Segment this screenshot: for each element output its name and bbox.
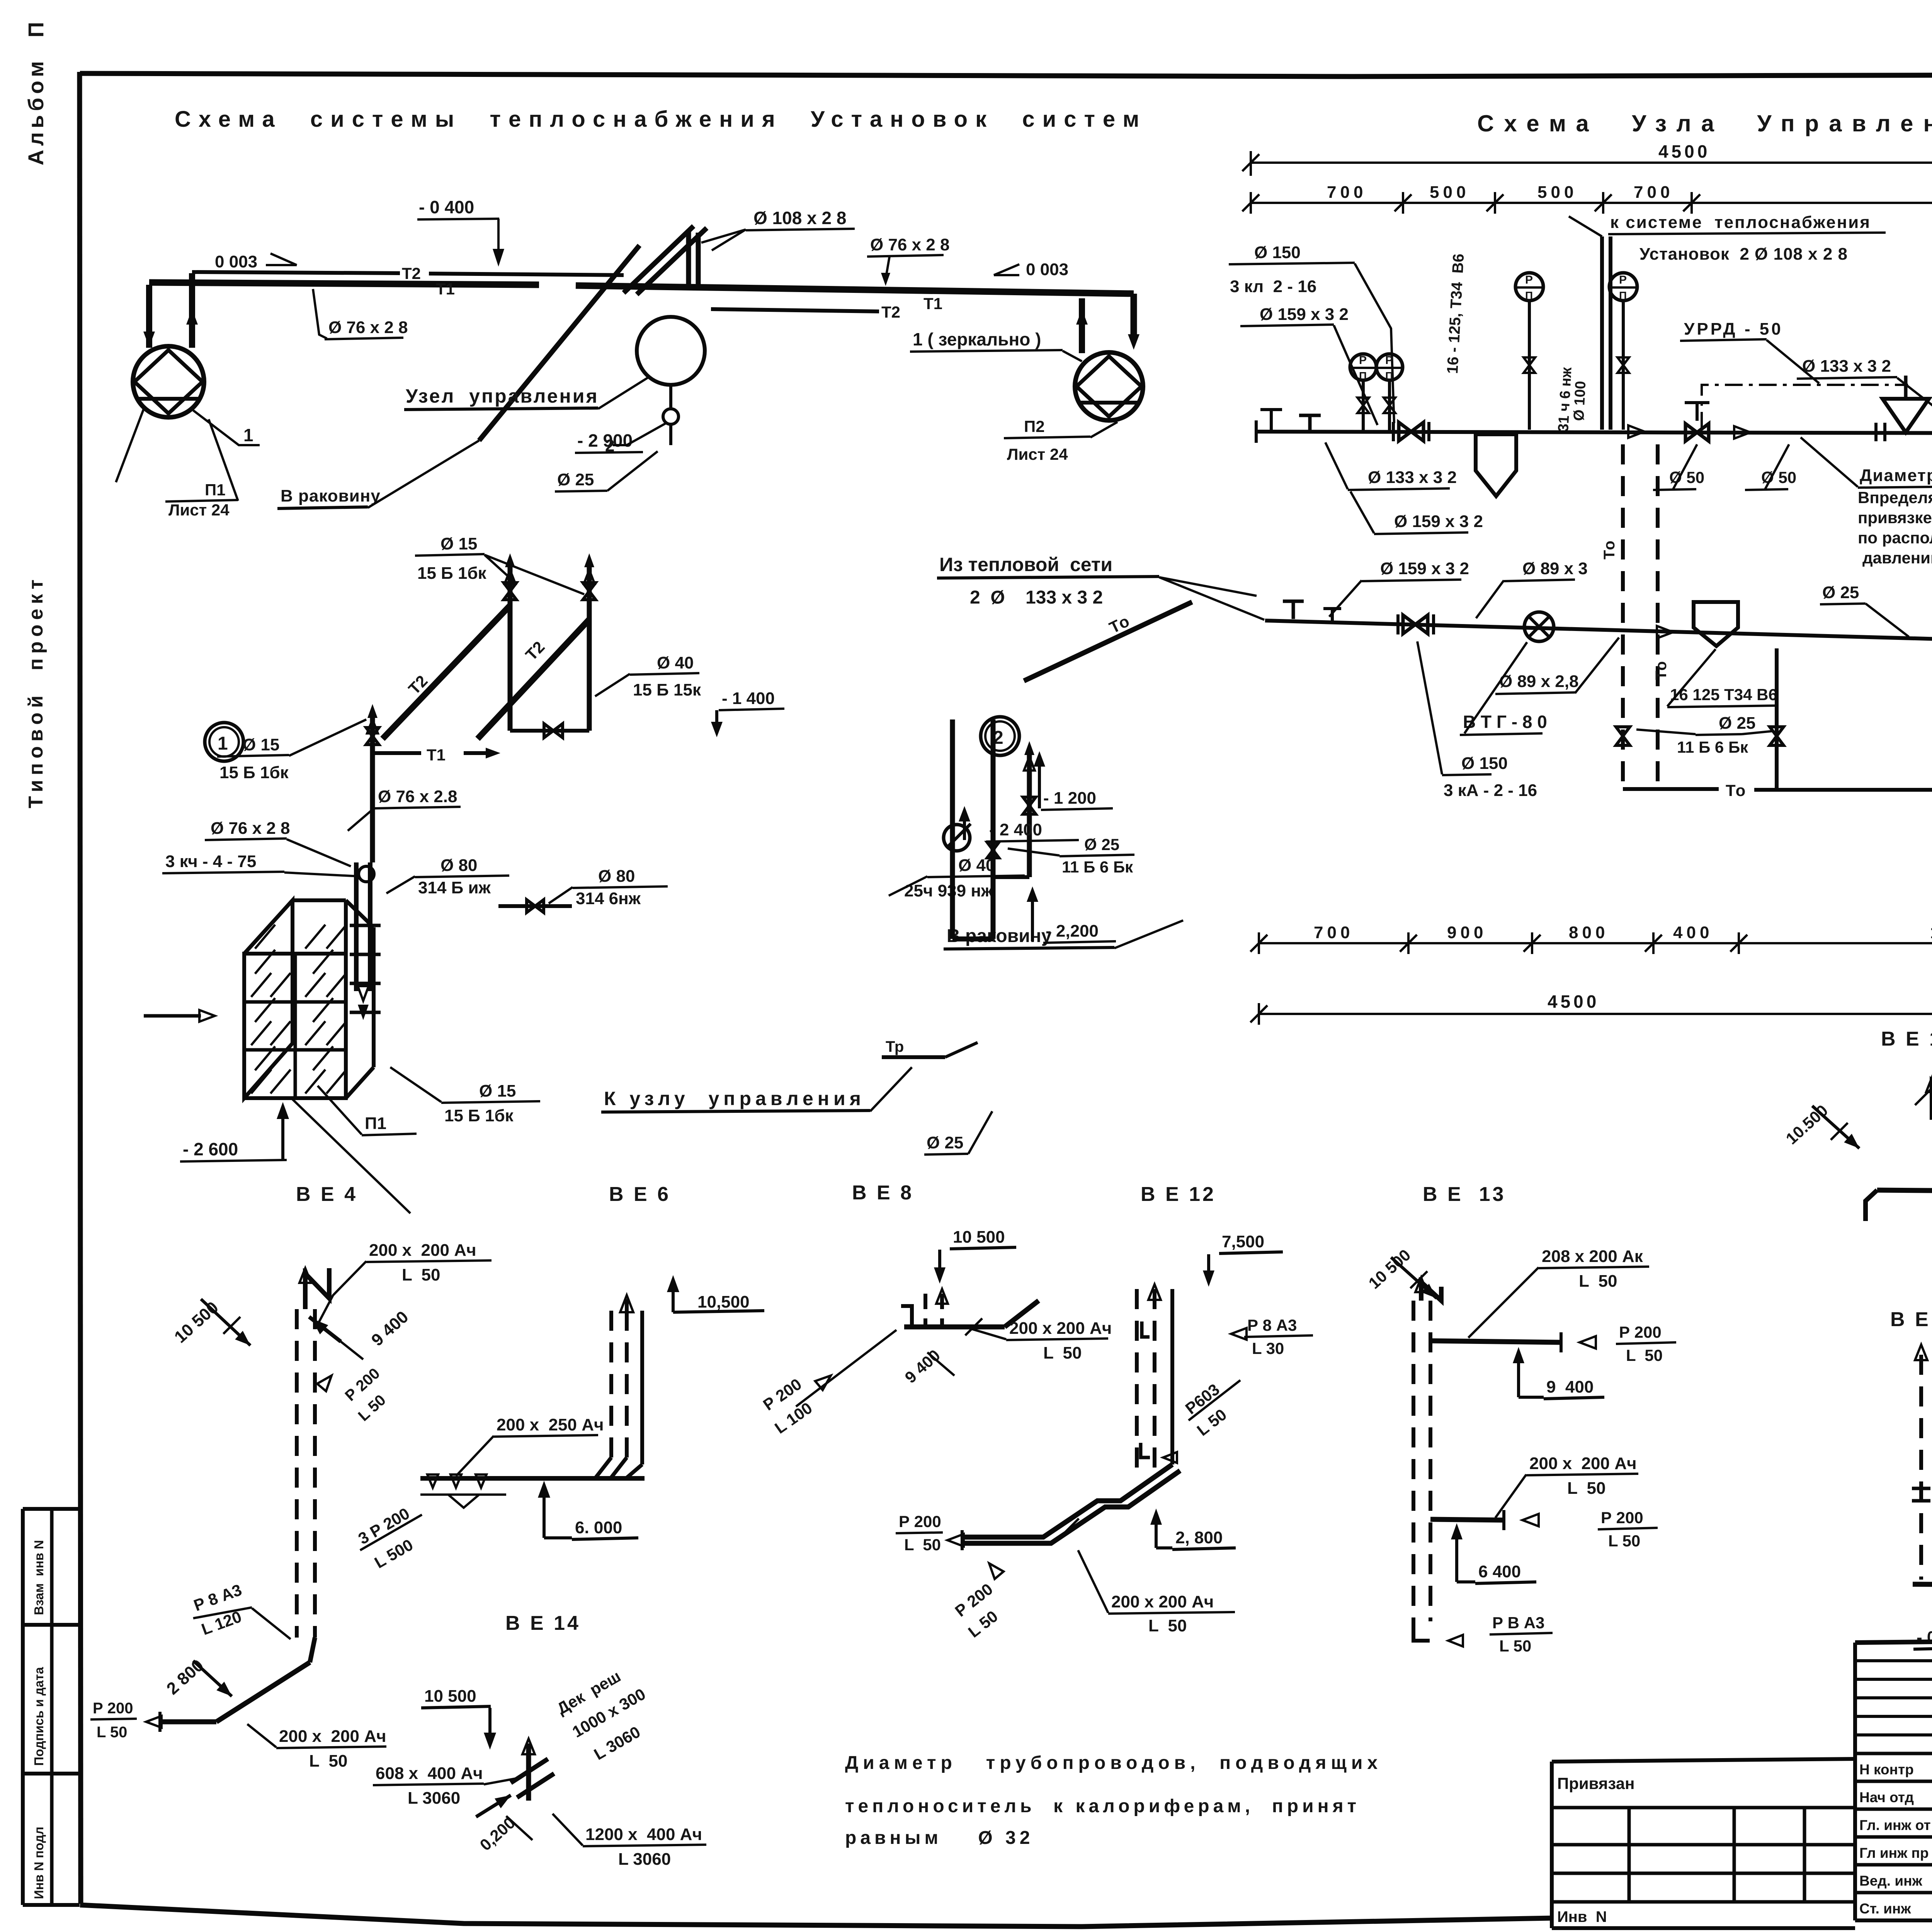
svg-text:равным Ø 32: равным Ø 32: [845, 1828, 1034, 1848]
slope mark 0.003 right: [994, 260, 1068, 279]
svg-text:L 50: L 50: [904, 1536, 941, 1554]
unit2 loop gauge: [944, 824, 971, 851]
svg-text:10,500: 10,500: [697, 1293, 750, 1311]
svg-text:Узел управления: Узел управления: [406, 385, 599, 407]
svg-text:L 50: L 50: [1148, 1616, 1187, 1635]
BE12 title: [1141, 1183, 1216, 1206]
svg-text:Р: Р: [1385, 354, 1393, 367]
svg-text:В Т Г - 8 0: В Т Г - 8 0: [1463, 712, 1547, 732]
svg-text:Р: Р: [1359, 354, 1367, 367]
label T1 left: [436, 280, 455, 298]
svg-text:Впределяется при: Впределяется при: [1858, 488, 1932, 507]
margin stamp label podpis i data: [32, 1667, 46, 1766]
svg-text:25ч 939 нж: 25ч 939 нж: [904, 881, 993, 900]
BE4 bottom arrow: [146, 1716, 162, 1728]
riser A valve: [504, 583, 517, 600]
label iz teplovoy seti: [937, 554, 1264, 620]
margin caption album: [24, 18, 48, 165]
svg-text:- 2,200: - 2,200: [1046, 922, 1099, 940]
BE12 label P8A3: [1231, 1316, 1313, 1357]
dirt pot upper: [1476, 434, 1516, 496]
BE13 vent: [1415, 1277, 1441, 1301]
label k sisteme teplosnabzheniya: [1608, 213, 1886, 264]
BE22 title: [1890, 1308, 1932, 1331]
unit mark 2 circle: [981, 717, 1019, 755]
privyazan table grid: [1552, 1759, 1855, 1928]
pipe supports: [1260, 410, 1321, 432]
main valve 2: [1685, 403, 1709, 441]
BE15 mark 10.500: [1782, 1101, 1859, 1148]
drop pipe right of pot: [1775, 648, 1779, 789]
svg-text:700: 700: [1314, 923, 1354, 942]
node uzel upravleniya circle: [637, 317, 705, 385]
BE4 label P8A3: [191, 1580, 291, 1639]
pipe T2 diagonal 2: [478, 619, 589, 739]
svg-text:1200 х 400 Ач: 1200 х 400 Ач: [585, 1825, 702, 1844]
flow arrow up2: [1734, 426, 1750, 439]
svg-text:В Е 13: В Е 13: [1423, 1183, 1506, 1206]
label d50 a: [1653, 444, 1704, 490]
BE6 mark 10.500: [667, 1275, 764, 1312]
label d80 314 right: [549, 867, 668, 908]
svg-text:1: 1: [218, 733, 228, 754]
regulator URRD body: [1883, 376, 1929, 432]
label d25 between: [1636, 714, 1773, 756]
svg-text:В Е 14: В Е 14: [505, 1612, 581, 1634]
svg-text:200 х 200 Ач: 200 х 200 Ач: [1009, 1319, 1112, 1338]
unit2 riser: [1023, 741, 1036, 877]
label d15 heater: [390, 1067, 540, 1125]
svg-text:15 Б 1бк: 15 Б 1бк: [219, 763, 289, 782]
label d15 left: [217, 719, 366, 782]
svg-text:7,500: 7,500: [1222, 1232, 1264, 1251]
label d76x2.8 unit1 left: [205, 819, 351, 866]
main valve 1: [1393, 422, 1429, 441]
BE14 label 1200x400: [553, 1814, 706, 1869]
BE12 mark 7.500: [1203, 1232, 1283, 1287]
BE4 mark 10.500: [171, 1298, 250, 1347]
BE22 bottom pipe: [1913, 1575, 1932, 1595]
svg-text:- 2 400: - 2 400: [989, 820, 1042, 839]
BE14 mark 0.200: [476, 1813, 532, 1854]
svg-text:- 2 600: - 2 600: [183, 1139, 238, 1159]
svg-text:Ø 80: Ø 80: [440, 856, 477, 875]
label URRD-50: [1680, 320, 1819, 383]
label d89x3: [1476, 559, 1588, 618]
BE22 riser dashed: [1912, 1345, 1930, 1580]
svg-text:Ø 133 х 3 2: Ø 133 х 3 2: [1368, 468, 1457, 487]
svg-text:Диаметр трубопроводов, подв: Диаметр трубопроводов, подводящих: [845, 1753, 1382, 1773]
BE8 pipe: [904, 1301, 1039, 1335]
svg-text:L 50: L 50: [1579, 1272, 1617, 1291]
riser C plug valve circle: [359, 866, 374, 882]
BE6 label 200x250: [456, 1415, 604, 1476]
svg-text:Нач отд: Нач отд: [1859, 1789, 1914, 1805]
svg-text:10 500: 10 500: [953, 1228, 1005, 1247]
pump P2 circle: [1075, 352, 1143, 420]
svg-text:Ø 150: Ø 150: [1461, 754, 1508, 773]
lower flow arrow: [1657, 626, 1673, 638]
svg-text:Схема Узла Управления: Схема Узла Управления: [1477, 111, 1932, 136]
BE14 mark 10.500: [421, 1687, 496, 1750]
drop valve: [1770, 727, 1784, 745]
elevation -2.200 unit2: [1027, 886, 1116, 943]
label T2 diag 1: [405, 672, 431, 698]
heater tag П1: [318, 1086, 417, 1135]
BE13 title: [1423, 1183, 1506, 1206]
pump P1 impeller: [134, 350, 202, 413]
dim chain bottom total: [1250, 992, 1932, 1025]
label d133 below: [1325, 442, 1457, 490]
BE14 title: [505, 1612, 581, 1634]
BE4 riser dashed pair: [297, 1309, 315, 1638]
elevation -1.200: [1034, 751, 1113, 810]
note diameter line1: [845, 1753, 1382, 1773]
svg-text:Инв N подл: Инв N подл: [32, 1827, 46, 1899]
svg-text:L 3060: L 3060: [618, 1850, 671, 1869]
gauge pair mid: [1515, 273, 1637, 430]
svg-text:2, 800: 2, 800: [1175, 1528, 1223, 1547]
margin stamp label vzam inv: [32, 1540, 46, 1615]
svg-text:П: П: [1525, 289, 1533, 301]
svg-text:Ø 159 х 3 2: Ø 159 х 3 2: [1260, 305, 1349, 324]
svg-text:П2: П2: [1024, 417, 1045, 435]
BE12 zpipe: [962, 1464, 1180, 1543]
BE4 mark 2.800: [163, 1656, 232, 1698]
label d25 tr: [924, 1111, 992, 1155]
BE13 branch low: [1430, 1510, 1539, 1530]
BE6 title: [609, 1183, 671, 1206]
svg-text:Ø 133 х 3 2: Ø 133 х 3 2: [1802, 357, 1891, 376]
svg-text:Т2: Т2: [402, 264, 421, 282]
BE8 title: [852, 1182, 914, 1204]
BE14 arrow left: [476, 1795, 511, 1817]
svg-text:Т1: Т1: [427, 746, 446, 764]
svg-text:Ст. инж: Ст. инж: [1859, 1901, 1911, 1917]
svg-text:4500: 4500: [1658, 141, 1710, 162]
svg-text:11 Б 6 Бк: 11 Б 6 Бк: [1677, 738, 1748, 756]
border frame top line: [80, 73, 1932, 77]
label To diagonal: [1024, 602, 1192, 681]
svg-text:УРРД - 50: УРРД - 50: [1684, 320, 1783, 338]
pipe T0 horizontal: [1623, 762, 1932, 801]
svg-text:Лист 24: Лист 24: [1007, 445, 1068, 463]
svg-text:В Е 6: В Е 6: [609, 1183, 671, 1206]
BE12 riser: [1137, 1284, 1172, 1471]
elevation -2.900 label: [575, 430, 643, 453]
svg-text:В Е 22 *: В Е 22 *: [1890, 1308, 1932, 1331]
svg-text:Ø 25: Ø 25: [1719, 714, 1755, 733]
elevation -1.400 unit1: [711, 689, 784, 737]
label T2 right: [881, 303, 900, 321]
svg-text:200 х 200 Ач: 200 х 200 Ач: [1111, 1592, 1214, 1611]
pipe T1 right segment: [576, 286, 1134, 294]
riser C drop arrows: [358, 986, 369, 1020]
svg-text:Т1: Т1: [436, 280, 455, 298]
svg-text:608 х 400 Ач: 608 х 400 Ач: [376, 1764, 483, 1783]
label 3kch-4-75: [162, 852, 360, 876]
label 16 125 T34 lower: [1667, 649, 1778, 707]
svg-text:L 50: L 50: [1043, 1344, 1082, 1362]
svg-text:0 003: 0 003: [215, 252, 257, 271]
svg-text:Р: Р: [1619, 274, 1627, 286]
BE22 mark -0.500: [1913, 1587, 1932, 1649]
svg-text:Ø 15: Ø 15: [479, 1082, 516, 1100]
svg-text:К узлу управления: К узлу управления: [604, 1088, 865, 1109]
svg-text:Диаметр шайбы: Диаметр шайбы: [1860, 466, 1932, 485]
BE4 callout 200x200: [318, 1241, 492, 1325]
branch riser pair: [1569, 216, 1611, 430]
svg-text:П1: П1: [205, 481, 226, 499]
valve small circle: [663, 385, 679, 445]
svg-text:давлению: давлению: [1862, 549, 1932, 567]
riser crossing vertical pair: [689, 232, 698, 291]
main pipe upper: [1256, 420, 1932, 443]
BE13 mark 6.400: [1451, 1523, 1536, 1583]
svg-text:L 50: L 50: [97, 1724, 127, 1741]
BE6 ground line: [420, 1476, 645, 1481]
svg-text:L 50: L 50: [402, 1265, 440, 1284]
svg-text:В раковину: В раковину: [947, 926, 1052, 946]
BE6 riser: [595, 1311, 642, 1478]
svg-text:П: П: [1385, 370, 1393, 382]
label d133 right: [1797, 357, 1932, 430]
svg-text:Ø 80: Ø 80: [598, 867, 635, 886]
signature rows text: [1859, 1762, 1932, 1917]
pump P2 ref П2 лист 24: [1004, 417, 1117, 463]
svg-text:31 ч 6 нж: 31 ч 6 нж: [1555, 366, 1575, 432]
svg-text:Привязан: Привязан: [1557, 1774, 1634, 1793]
BE8 riser: [901, 1289, 948, 1326]
T0 dashed left pair: [1601, 444, 1670, 789]
svg-text:500: 500: [1430, 183, 1469, 202]
svg-text:Взам инв N: Взам инв N: [32, 1540, 46, 1615]
label d150 3kl: [1229, 243, 1394, 423]
svg-text:Инв N: Инв N: [1557, 1908, 1607, 1925]
label d76x2.8 left: [313, 289, 408, 339]
svg-text:по располагаемому: по располагаемому: [1858, 529, 1932, 547]
BE13 mark 10.500: [1365, 1246, 1437, 1298]
svg-text:Ø 25: Ø 25: [1822, 583, 1859, 602]
svg-text:Н контр: Н контр: [1859, 1762, 1914, 1777]
privyazan label: [1557, 1774, 1634, 1793]
label d159 lower-left: [1329, 559, 1469, 617]
svg-text:В Е 15: В Е 15: [1881, 1028, 1932, 1050]
BE14 label 608x400: [373, 1764, 522, 1808]
riser B vent arrows: [584, 553, 595, 584]
svg-text:Ø 76 х 2.8: Ø 76 х 2.8: [378, 787, 457, 806]
tag 2 leader: [605, 423, 665, 455]
pipe T2 mid segment: [429, 274, 624, 275]
svg-text:Установок 2 Ø 108 х 2 8: Установок 2 Ø 108 х 2 8: [1639, 245, 1848, 264]
svg-text:Ø 50: Ø 50: [1761, 468, 1796, 486]
BE4 label P200 left: [90, 1700, 137, 1741]
main pipe lower: [1265, 621, 1932, 655]
svg-text:900: 900: [1447, 923, 1487, 942]
BE4 label 200x200 low: [247, 1724, 386, 1770]
svg-text:П: П: [1619, 289, 1627, 301]
svg-text:L 3060: L 3060: [408, 1789, 460, 1808]
svg-text:200 х 200 Ач: 200 х 200 Ач: [279, 1727, 386, 1746]
BE13 label P200 low: [1598, 1509, 1658, 1550]
svg-text:Р 8 А3: Р 8 А3: [1247, 1316, 1297, 1334]
gauge pair left: [1350, 354, 1403, 430]
svg-text:Типовой проект: Типовой проект: [25, 575, 47, 808]
svg-text:3 кл 2 - 16: 3 кл 2 - 16: [1230, 277, 1316, 296]
BE12 label P200 diag: [952, 1580, 1002, 1641]
riser C vertical: [370, 717, 375, 862]
pipe T1 stub: [372, 746, 500, 764]
margin stamp box grid: [23, 1509, 80, 1905]
svg-text:1: 1: [243, 425, 253, 445]
riser A vent arrows: [505, 553, 515, 584]
label d150 3kA: [1417, 641, 1537, 800]
svg-text:314 Б иж: 314 Б иж: [418, 878, 491, 897]
svg-text:Гл инж пр: Гл инж пр: [1859, 1845, 1929, 1861]
union flanges: [1876, 423, 1885, 441]
svg-text:Р 200: Р 200: [1601, 1509, 1643, 1527]
svg-text:L 50: L 50: [1567, 1479, 1605, 1498]
elevation -2.400: [959, 806, 1079, 842]
svg-text:Р 200: Р 200: [899, 1512, 941, 1531]
pump P1 circle: [133, 346, 204, 417]
BE12 hook: [1141, 1443, 1177, 1463]
label d76x2.8 right: [867, 235, 949, 286]
slope mark 0.003 left: [215, 252, 297, 271]
svg-text:Из тепловой сети: Из тепловой сети: [939, 554, 1112, 575]
svg-text:Ø 150: Ø 150: [1254, 243, 1301, 262]
pump P1 ref П1 лист 24: [116, 409, 238, 519]
BE8 label P200 L100: [760, 1330, 896, 1437]
svg-text:Ø 40: Ø 40: [657, 653, 694, 672]
pump P2 impeller: [1077, 356, 1141, 417]
BE14 vent pipe: [511, 1739, 554, 1801]
svg-text:15 Б 1бк: 15 Б 1бк: [417, 564, 487, 583]
svg-text:4500: 4500: [1548, 992, 1599, 1012]
svg-text:- 1 400: - 1 400: [722, 689, 775, 708]
svg-text:Ø 159 х 3 2: Ø 159 х 3 2: [1394, 512, 1483, 531]
label T2 left: [402, 264, 421, 282]
pump P1 tag leader: [193, 410, 260, 445]
svg-text:Ø 15: Ø 15: [440, 534, 477, 553]
heater calorifer block: [244, 900, 381, 1098]
svg-text:15 Б 15к: 15 Б 15к: [633, 680, 701, 699]
svg-text:П1: П1: [365, 1114, 386, 1133]
svg-text:6. 000: 6. 000: [575, 1518, 622, 1537]
T0 left valve: [1616, 727, 1630, 745]
svg-text:теплоноситель к калориферам,: теплоноситель к калориферам, принят: [845, 1796, 1360, 1816]
heater inlet arrow: [144, 1010, 215, 1022]
flow arrow up1: [1628, 425, 1645, 438]
svg-text:Ø 25: Ø 25: [927, 1133, 963, 1152]
BE13 mark 9.400: [1513, 1347, 1604, 1399]
svg-text:Ø 25: Ø 25: [1084, 835, 1119, 854]
svg-text:П: П: [1359, 370, 1367, 382]
svg-text:Тo: Тo: [1726, 781, 1745, 799]
svg-text:Ø 89 х 2,8: Ø 89 х 2,8: [1499, 672, 1578, 691]
svg-text:Ø 76 х 2 8: Ø 76 х 2 8: [328, 318, 408, 337]
riser C double drop: [356, 862, 370, 991]
svg-text:Р В А3: Р В А3: [1492, 1614, 1544, 1632]
svg-text:3 кч - 4 - 75: 3 кч - 4 - 75: [165, 852, 256, 871]
label d159x32 left: [1240, 305, 1378, 425]
BE12 label P200 left: [896, 1512, 943, 1554]
riser A vertical: [508, 567, 513, 731]
BE12 end arrows: [947, 1530, 1003, 1579]
svg-text:500: 500: [1537, 183, 1577, 202]
label d40 15B15k: [595, 653, 701, 699]
svg-text:200 х 250 Ач: 200 х 250 Ач: [497, 1415, 604, 1434]
svg-text:700: 700: [1634, 183, 1673, 202]
svg-text:В Е 12: В Е 12: [1141, 1183, 1216, 1206]
label d159 below: [1350, 492, 1483, 534]
svg-text:L 50: L 50: [1499, 1637, 1531, 1655]
dim chain bottom segments: [1250, 923, 1932, 954]
label d50 b: [1745, 444, 1796, 490]
svg-text:В Е 4: В Е 4: [296, 1183, 358, 1206]
BE8 label 200x200: [970, 1319, 1112, 1362]
BE15 vent zigzag: [1915, 1073, 1932, 1120]
heater edge leader: [293, 1099, 410, 1213]
pump P2 drop arrowhead: [1128, 334, 1139, 350]
svg-text:9 400: 9 400: [1546, 1378, 1594, 1396]
inv n label: [1557, 1908, 1607, 1925]
label d25 T0a: [1820, 583, 1909, 637]
label d25 11B6bk unit2: [1008, 835, 1134, 876]
svg-text:Гл. инж от: Гл. инж от: [1859, 1817, 1931, 1833]
svg-text:2 Ø 133 х 3 2: 2 Ø 133 х 3 2: [970, 587, 1103, 608]
svg-text:15 Б 1бк: 15 Б 1бк: [444, 1106, 514, 1125]
svg-text:800: 800: [1569, 923, 1609, 942]
dirt pot lower: [1694, 602, 1738, 646]
BE13 label 208x200: [1468, 1247, 1649, 1338]
label T1 right: [923, 294, 942, 313]
BE13 label PBA3: [1490, 1614, 1553, 1655]
title control unit scheme: [1477, 111, 1932, 136]
note diametr shayby: [1801, 437, 1932, 567]
unit2 loop pipes: [952, 719, 1029, 939]
BE4 bottom pipe: [160, 1638, 315, 1732]
pump P1 suction pipe: [143, 285, 155, 348]
BE13 label P200 top: [1616, 1323, 1676, 1364]
svg-text:314 6нж: 314 6нж: [576, 889, 641, 908]
svg-text:L 50: L 50: [1608, 1532, 1640, 1550]
pump P1 discharge pipe: [186, 273, 198, 348]
BE12 mark 2.800: [1150, 1509, 1236, 1549]
BE13 bottom hook: [1413, 1621, 1463, 1646]
svg-text:Ø 25: Ø 25: [557, 470, 594, 489]
label v rakovinu unit2: [944, 920, 1183, 949]
note diameter line3: [845, 1828, 1034, 1848]
BE8 mark 10.500: [934, 1228, 1016, 1284]
label VTG-80: [1460, 642, 1547, 735]
svg-text:Р 200: Р 200: [1619, 1323, 1662, 1341]
svg-text:Р: Р: [1525, 274, 1533, 286]
note diameter line2: [845, 1796, 1360, 1816]
riser B vertical: [587, 567, 592, 731]
water meter VTG: [1524, 612, 1554, 641]
svg-text:Т1: Т1: [923, 294, 942, 313]
pipe T2 left segment: [192, 272, 400, 273]
cross pipe unit1 low: [498, 900, 572, 913]
pipe T1 drop to pump P2: [1131, 294, 1137, 340]
label d108x2.8: [701, 208, 855, 250]
svg-text:Лист 24: Лист 24: [168, 501, 230, 519]
dim chain top total line: [1242, 141, 1932, 176]
BE13 riser: [1413, 1301, 1430, 1621]
svg-text:0 003: 0 003: [1026, 260, 1068, 279]
BE14 label dek resh: [554, 1667, 649, 1764]
